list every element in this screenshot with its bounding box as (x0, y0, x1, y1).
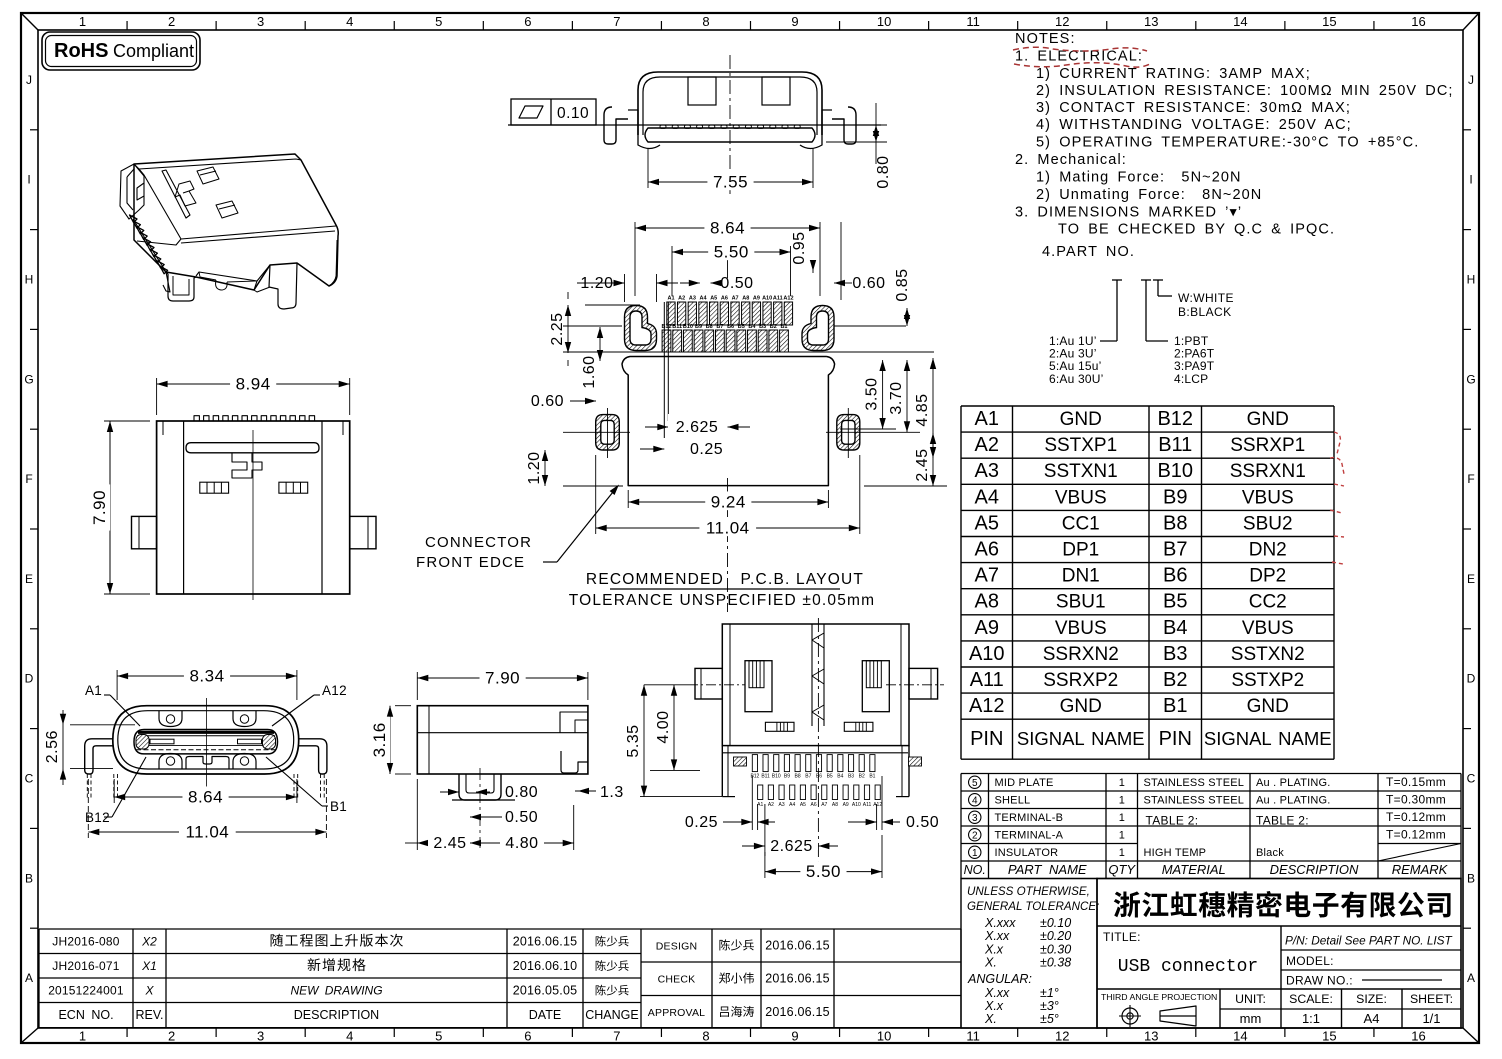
svg-text:0.25: 0.25 (690, 441, 723, 458)
red revision scribble over ELECTRICAL (1013, 47, 1150, 67)
svg-text:1.3: 1.3 (600, 784, 624, 801)
svg-text:A11: A11 (970, 669, 1004, 691)
svg-text:A3: A3 (689, 296, 696, 302)
svg-text:SHEET:: SHEET: (1410, 992, 1453, 1006)
svg-text:B2: B2 (1163, 669, 1187, 691)
bottom view latch blocks (745, 661, 772, 712)
svg-text:A12: A12 (783, 296, 793, 302)
bottom view side hatched blocks (734, 757, 747, 766)
dim 0.85 right vertical (906, 308, 908, 326)
svg-text:4:LCP: 4:LCP (1174, 372, 1208, 386)
svg-text:CC2: CC2 (1249, 592, 1287, 613)
dim 11.04 bottom (87, 779, 89, 838)
svg-text:MID PLATE: MID PLATE (995, 777, 1054, 789)
bottom view B pin comb (752, 755, 757, 772)
svg-text:PART NAME: PART NAME (1008, 862, 1087, 877)
svg-text:A5: A5 (710, 296, 717, 302)
top view body (157, 421, 350, 594)
svg-text:A: A (25, 971, 33, 985)
svg-text:T=0.30mm: T=0.30mm (1386, 793, 1446, 807)
svg-text:SIGNAL NAME: SIGNAL NAME (1017, 728, 1145, 749)
RoHS Compliant label box (42, 32, 200, 70)
svg-text:B: B (1467, 871, 1475, 885)
svg-text:DESCRIPTION: DESCRIPTION (1270, 862, 1359, 877)
svg-text:mm: mm (1240, 1011, 1262, 1026)
svg-text:TABLE 2:: TABLE 2: (1256, 814, 1309, 828)
side view leg centerline (479, 768, 481, 848)
svg-text:8.94: 8.94 (236, 375, 271, 394)
svg-text:A12: A12 (873, 802, 882, 808)
svg-text:A7: A7 (975, 565, 999, 587)
pin signal table (961, 405, 1334, 407)
svg-text:B12: B12 (1157, 408, 1193, 430)
iso rect hole 2 (216, 201, 238, 218)
svg-text:0.80: 0.80 (875, 155, 892, 188)
svg-text:CHANGE: CHANGE (585, 1008, 638, 1022)
svg-text:2.25: 2.25 (549, 312, 566, 345)
svg-text:A11: A11 (863, 802, 872, 808)
svg-text:A7: A7 (821, 802, 827, 808)
oval pads (596, 415, 620, 450)
svg-text:3.50: 3.50 (864, 377, 881, 410)
svg-text:2.56: 2.56 (44, 730, 61, 763)
svg-text:X: X (144, 984, 154, 998)
svg-text:UNIT:: UNIT: (1235, 992, 1266, 1006)
dim 1.3 (575, 790, 596, 792)
bottom view body (722, 624, 909, 746)
svg-text:B11: B11 (672, 324, 682, 330)
svg-text:DN1: DN1 (1062, 566, 1100, 587)
svg-text:11.04: 11.04 (185, 823, 229, 842)
dim 0.95 (812, 266, 814, 273)
svg-text:A3: A3 (975, 460, 999, 482)
svg-text:1.20: 1.20 (526, 451, 543, 484)
svg-text:H: H (1467, 273, 1476, 287)
svg-text:C: C (25, 772, 34, 786)
svg-text:PIN: PIN (970, 728, 1003, 750)
svg-text:DESIGN: DESIGN (656, 941, 697, 953)
svg-text:B6: B6 (1163, 565, 1187, 587)
dims 3.50 3.70 4.85 right (882, 360, 884, 429)
svg-text:JH2016-071: JH2016-071 (52, 959, 120, 973)
svg-text:B9: B9 (1163, 486, 1187, 508)
svg-text:0.10: 0.10 (557, 105, 589, 122)
svg-text:2) INSULATION RESISTANCE: 100M: 2) INSULATION RESISTANCE: 100MΩ MIN 250V… (1036, 83, 1454, 99)
svg-text:0.50: 0.50 (906, 814, 939, 831)
svg-text:16: 16 (1411, 14, 1425, 29)
dim 0.50 (470, 814, 481, 820)
shell latch notches (688, 77, 716, 105)
svg-text:A: A (1467, 971, 1475, 985)
tongue end caps (136, 735, 149, 750)
svg-text:8.64: 8.64 (188, 788, 223, 807)
svg-text:A4: A4 (789, 802, 795, 808)
svg-text:A1: A1 (975, 408, 999, 430)
svg-text:D: D (25, 672, 34, 686)
svg-text:QTY: QTY (1108, 862, 1136, 877)
svg-text:P/N: Detail See PART NO. LIST: P/N: Detail See PART NO. LIST (1285, 934, 1453, 948)
dim 2.625 (657, 424, 668, 430)
side view front details (560, 712, 588, 733)
svg-text:C: C (1467, 772, 1476, 786)
iso front face bottom rim (196, 265, 270, 290)
dim 11.04 (595, 455, 597, 534)
top view small combs (200, 482, 229, 493)
svg-text:B7: B7 (1163, 539, 1187, 561)
front view left leg (85, 739, 113, 774)
svg-text:A6: A6 (811, 802, 817, 808)
svg-text:TOLERANCE UNSPECIFIED ±0.05mm: TOLERANCE UNSPECIFIED ±0.05mm (569, 592, 876, 609)
svg-text:A9: A9 (843, 802, 849, 808)
iso bottom left leg (166, 272, 196, 301)
svg-text:4: 4 (346, 14, 353, 29)
svg-text:A5: A5 (800, 802, 806, 808)
iso small bump on bottom edge (216, 280, 228, 290)
svg-text:8: 8 (702, 14, 709, 29)
svg-text:X.xx: X.xx (984, 986, 1010, 1000)
front view right leg (299, 739, 327, 774)
svg-text:7: 7 (613, 1029, 620, 1044)
svg-text:J: J (26, 73, 32, 87)
svg-text:3) CONTACT RESISTANCE: 30mΩ MA: 3) CONTACT RESISTANCE: 30mΩ MAX; (1036, 100, 1351, 116)
svg-text:7.55: 7.55 (713, 173, 748, 192)
svg-text:A9: A9 (753, 296, 760, 302)
dim 4.00 (673, 685, 675, 771)
svg-text:G: G (1466, 372, 1475, 386)
svg-text:SSRXN2: SSRXN2 (1043, 644, 1119, 665)
svg-text:0.80: 0.80 (505, 784, 538, 801)
svg-text:REMARK: REMARK (1392, 862, 1449, 877)
svg-text:B8: B8 (1163, 512, 1187, 534)
svg-text:SIGNAL NAME: SIGNAL NAME (1204, 728, 1332, 749)
svg-text:±3°: ±3° (1040, 999, 1059, 1013)
svg-text:B7: B7 (716, 324, 723, 330)
svg-text:1.20: 1.20 (580, 275, 613, 292)
svg-text:B8: B8 (706, 324, 713, 330)
svg-text:2016.06.15: 2016.06.15 (513, 935, 578, 949)
svg-text:2.625: 2.625 (770, 838, 813, 855)
svg-text:7: 7 (613, 14, 620, 29)
svg-text:A4: A4 (975, 486, 999, 508)
svg-text:X.: X. (984, 1012, 997, 1026)
svg-text:B1: B1 (1163, 695, 1187, 717)
svg-text:CONNECTOR: CONNECTOR (425, 534, 532, 551)
svg-text:6:Au 30U’: 6:Au 30U’ (1049, 372, 1104, 386)
svg-text:1) Mating Force: 5N~20N: 1) Mating Force: 5N~20N (1036, 170, 1242, 186)
svg-text:SSTXP2: SSTXP2 (1231, 670, 1304, 691)
svg-text:5: 5 (972, 778, 978, 789)
svg-text:2.625: 2.625 (676, 419, 719, 436)
svg-text:A5: A5 (975, 512, 999, 534)
iso rect hole 1 (197, 167, 219, 184)
svg-text:12: 12 (1055, 14, 1069, 29)
top view side tabs (132, 516, 157, 548)
svg-text:7.90: 7.90 (90, 490, 109, 525)
bottom view small striped rects (765, 722, 794, 731)
dim 8.34 (116, 670, 118, 700)
svg-text:B10: B10 (772, 774, 781, 780)
svg-text:1: 1 (1119, 812, 1125, 824)
side view hook detail (561, 751, 588, 773)
svg-text:B6: B6 (816, 774, 822, 780)
dim 2.45 right (932, 432, 934, 486)
svg-text:2) Unmating Force: 8N~20N: 2) Unmating Force: 8N~20N (1036, 187, 1262, 203)
svg-text:CHECK: CHECK (658, 974, 696, 986)
svg-text:A2: A2 (975, 434, 999, 456)
svg-text:B4: B4 (748, 324, 756, 330)
svg-text:VBUS: VBUS (1242, 487, 1294, 508)
svg-text:SSRXP1: SSRXP1 (1230, 435, 1305, 456)
svg-text:Au . PLATING.: Au . PLATING. (1256, 795, 1331, 807)
svg-text:J: J (1468, 73, 1474, 87)
top view centerline (252, 430, 254, 600)
svg-text:E: E (25, 572, 33, 586)
svg-text:15: 15 (1322, 14, 1336, 29)
truncated cone symbol (1160, 1006, 1196, 1026)
svg-text:1: 1 (1119, 830, 1125, 842)
svg-text:TITLE:: TITLE: (1103, 930, 1141, 944)
svg-text:Au . PLATING.: Au . PLATING. (1256, 777, 1331, 789)
svg-text:5: 5 (435, 1029, 442, 1044)
oval crosshair lines (584, 431, 630, 433)
svg-text:E: E (1467, 572, 1475, 586)
svg-text:5.35: 5.35 (625, 724, 642, 757)
dim 0.50 bottom (876, 804, 878, 830)
svg-text:2: 2 (972, 830, 978, 841)
svg-text:VBUS: VBUS (1055, 487, 1107, 508)
svg-text:4.00: 4.00 (655, 710, 672, 743)
svg-text:A11: A11 (773, 296, 783, 302)
svg-text:F: F (25, 472, 32, 486)
dim 8.64 top (634, 222, 636, 296)
svg-text:CC1: CC1 (1062, 513, 1100, 534)
svg-text:10: 10 (877, 14, 891, 29)
svg-text:SSTXP1: SSTXP1 (1044, 435, 1117, 456)
svg-text:B4: B4 (1163, 617, 1187, 639)
svg-text:A12: A12 (969, 695, 1005, 717)
contact bumps (660, 125, 666, 128)
svg-text:13: 13 (1144, 14, 1158, 29)
svg-text:NO.: NO. (964, 863, 986, 877)
dim 7.90 left (104, 420, 150, 422)
bottom view A pin comb (758, 785, 763, 800)
svg-text:STAINLESS STEEL: STAINLESS STEEL (1144, 777, 1245, 789)
pcb layout: left hook pad (625, 306, 657, 351)
bottom inner arches (159, 754, 182, 769)
svg-text:0.60: 0.60 (531, 393, 564, 410)
front view tongue (134, 730, 278, 754)
svg-text:A10: A10 (852, 802, 861, 808)
top view inner bar (186, 443, 319, 453)
dim 2.625 bottom (764, 804, 766, 856)
svg-text:5.50: 5.50 (714, 243, 749, 262)
svg-text:X1: X1 (141, 959, 157, 973)
flatness tolerance box 0.10 (511, 99, 596, 125)
svg-text:0.60: 0.60 (852, 275, 885, 292)
svg-text:SBU1: SBU1 (1056, 592, 1106, 613)
svg-text:8.64: 8.64 (710, 219, 745, 238)
svg-text:DESCRIPTION: DESCRIPTION (294, 1008, 379, 1022)
svg-text:12: 12 (1055, 1029, 1069, 1044)
svg-text:A10: A10 (969, 643, 1005, 665)
dim 0.80 (448, 789, 459, 795)
svg-text:GND: GND (1247, 696, 1289, 717)
tongue side bars (150, 739, 174, 744)
svg-text:±0.10: ±0.10 (1040, 916, 1071, 930)
svg-text:APPROVAL: APPROVAL (648, 1007, 705, 1019)
svg-text:NEW DRAWING: NEW DRAWING (290, 984, 382, 998)
svg-text:±5°: ±5° (1040, 1012, 1059, 1026)
svg-text:3. DIMENSIONS MARKED ’▾’: 3. DIMENSIONS MARKED ’▾’ (1015, 205, 1242, 221)
side view leg (459, 774, 501, 800)
svg-text:B12: B12 (750, 774, 759, 780)
svg-text:1: 1 (1119, 847, 1125, 859)
svg-text:11: 11 (966, 1029, 980, 1044)
BOM parts table (961, 773, 1461, 775)
isometric 3d view: top shell face (134, 154, 338, 290)
svg-text:REV.: REV. (135, 1008, 163, 1022)
svg-text:W:WHITE: W:WHITE (1178, 291, 1234, 305)
svg-text:10: 10 (877, 1029, 891, 1044)
svg-text:2016.06.15: 2016.06.15 (765, 972, 830, 986)
svg-text:±0.20: ±0.20 (1040, 929, 1071, 943)
top inner arches (159, 711, 182, 727)
svg-text:1:1: 1:1 (1302, 1011, 1320, 1026)
pcb base line (508, 124, 881, 126)
leg inner hidden lines (113, 774, 115, 798)
svg-text:I: I (1469, 173, 1472, 187)
svg-text:SSRXP2: SSRXP2 (1043, 670, 1118, 691)
dim 8.64 bottom (113, 779, 115, 803)
svg-text:5: 5 (435, 14, 442, 29)
svg-text:JH2016-080: JH2016-080 (52, 935, 120, 949)
svg-text:B2: B2 (770, 324, 777, 330)
svg-text:B1: B1 (330, 799, 347, 814)
svg-text:I: I (27, 173, 30, 187)
svg-text:2.45: 2.45 (433, 835, 466, 852)
svg-text:B2: B2 (859, 774, 865, 780)
svg-text:RECOMMENDED P.C.B. LAYOUT: RECOMMENDED P.C.B. LAYOUT (586, 571, 864, 588)
svg-text:INSULATOR: INSULATOR (995, 847, 1059, 859)
svg-text:SCALE:: SCALE: (1289, 992, 1333, 1006)
svg-text:2: 2 (168, 14, 175, 29)
iso top face rim lines (134, 159, 336, 245)
svg-text:A8: A8 (742, 296, 749, 302)
dim 2.56 left (70, 724, 135, 726)
svg-text:1: 1 (1119, 777, 1125, 789)
svg-text:GND: GND (1247, 409, 1289, 430)
svg-text:G: G (24, 372, 33, 386)
svg-text:A4: A4 (1364, 1011, 1380, 1026)
svg-text:X.xx: X.xx (984, 929, 1010, 943)
svg-text:X.: X. (984, 956, 997, 970)
svg-text:2: 2 (168, 1029, 175, 1044)
svg-text:1: 1 (1119, 795, 1125, 807)
svg-text:2016.05.05: 2016.05.05 (513, 984, 578, 998)
svg-text:B3: B3 (759, 324, 766, 330)
svg-text:USB connector: USB connector (1118, 957, 1258, 977)
svg-text:14: 14 (1233, 14, 1247, 29)
svg-text:0.95: 0.95 (791, 231, 808, 264)
svg-text:Compliant: Compliant (113, 41, 194, 61)
approval block (641, 928, 961, 930)
svg-text:B12: B12 (661, 324, 671, 330)
svg-text:B3: B3 (848, 774, 854, 780)
svg-text:MODEL:: MODEL: (1286, 954, 1334, 968)
svg-text:GND: GND (1060, 696, 1102, 717)
svg-text:A12: A12 (322, 683, 347, 698)
svg-text:Black: Black (1256, 847, 1284, 859)
svg-text:0.85: 0.85 (894, 268, 911, 301)
dim 0.25 bottom (751, 776, 753, 830)
svg-text:T=0.15mm: T=0.15mm (1386, 775, 1446, 789)
centerline cross-section (729, 55, 731, 198)
svg-text:0.50: 0.50 (505, 809, 538, 826)
svg-text:5) OPERATING TEMPERATURE:-30°C: 5) OPERATING TEMPERATURE:-30°C TO +85°C. (1036, 135, 1419, 151)
svg-text:1.60: 1.60 (581, 355, 598, 388)
svg-text:HIGH TEMP: HIGH TEMP (1144, 847, 1207, 859)
svg-text:0.25: 0.25 (685, 814, 718, 831)
pcb layout: row B pads (662, 330, 671, 352)
svg-text:13: 13 (1144, 1029, 1158, 1044)
extension pair lines (663, 302, 665, 438)
svg-text:±0.38: ±0.38 (1040, 956, 1071, 970)
svg-text:B5: B5 (1163, 591, 1187, 613)
bottom view side wings (695, 668, 722, 699)
svg-text:B1: B1 (869, 774, 875, 780)
svg-text:15: 15 (1322, 1029, 1336, 1044)
svg-text:DN2: DN2 (1249, 540, 1287, 561)
svg-text:4.80: 4.80 (505, 835, 538, 852)
svg-text:4.PART NO.: 4.PART NO. (1042, 244, 1135, 260)
svg-text:A3: A3 (778, 802, 784, 808)
svg-text:B7: B7 (805, 774, 811, 780)
pcb layout: row A pads (667, 302, 675, 325)
svg-text:A1: A1 (667, 296, 674, 302)
svg-text:1: 1 (79, 1029, 86, 1044)
svg-text:B5: B5 (738, 324, 745, 330)
reference lines around pads (563, 325, 622, 327)
revision history table (39, 928, 641, 930)
svg-text:THIRD ANGLE PROJECTION: THIRD ANGLE PROJECTION (1101, 992, 1217, 1002)
svg-text:8.34: 8.34 (189, 667, 224, 686)
dim 0.25 (653, 446, 664, 452)
svg-text:9: 9 (791, 14, 798, 29)
svg-text:3.70: 3.70 (888, 381, 905, 414)
company name (CJK) (1114, 891, 1451, 918)
svg-text:7.90: 7.90 (485, 669, 520, 688)
right solder leg (832, 107, 856, 144)
tolerance box (961, 879, 1097, 1029)
iso serrated contact fingers (130, 215, 138, 223)
dim 5.50 bottom (764, 852, 766, 878)
pcb body outline (622, 357, 835, 486)
svg-text:A9: A9 (975, 617, 999, 639)
svg-text:A2: A2 (678, 296, 685, 302)
svg-text:6: 6 (524, 14, 531, 29)
svg-text:T=0.12mm: T=0.12mm (1386, 810, 1446, 824)
left solder leg (604, 107, 628, 144)
svg-text:11.04: 11.04 (706, 519, 750, 538)
svg-text:DP2: DP2 (1249, 566, 1286, 587)
svg-text:4: 4 (346, 1029, 353, 1044)
svg-text:B:BLACK: B:BLACK (1178, 305, 1232, 319)
dim 0.80 vertical (826, 124, 887, 126)
svg-text:A7: A7 (732, 296, 739, 302)
svg-text:F: F (1467, 472, 1474, 486)
svg-text:GND: GND (1060, 409, 1102, 430)
top view T structure (232, 453, 262, 478)
